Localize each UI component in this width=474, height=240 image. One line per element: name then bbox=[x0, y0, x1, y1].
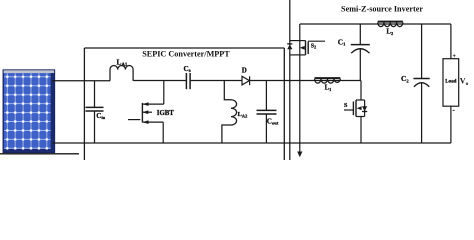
transistor S2 bbox=[287, 41, 325, 55]
load resistor box bbox=[443, 24, 459, 143]
wire: middle rail Cs to D bbox=[190, 80, 242, 82]
svg-text:SEPIC Converter/MPPT: SEPIC Converter/MPPT bbox=[142, 50, 230, 59]
inductor LA2 bbox=[222, 81, 237, 144]
wire: PV+ to SEPIC input (middle rail left) bbox=[52, 80, 110, 82]
svg-text:IGBT: IGBT bbox=[157, 110, 174, 117]
svg-text:Load: Load bbox=[445, 80, 456, 85]
capacitor Cin bbox=[86, 81, 104, 143]
wire: long vertical bus through S2 body-diode branch bbox=[289, 0, 291, 160]
SEPIC dashed enclosure box bbox=[84, 48, 284, 160]
svg-text:-: - bbox=[453, 107, 455, 114]
wire: middle rail LA1 to Cs bbox=[133, 80, 186, 82]
svg-text:D: D bbox=[242, 67, 247, 75]
transistor S1 bbox=[344, 81, 367, 144]
capacitor Cout bbox=[257, 81, 277, 144]
diode D bbox=[242, 76, 250, 85]
inductor L2 bbox=[378, 22, 403, 27]
wire: middle rail D to S1 drain node bbox=[250, 80, 361, 82]
capacitor Cs bbox=[186, 73, 190, 89]
wire: inverter top rail bbox=[300, 23, 451, 25]
inductor L1 bbox=[315, 78, 341, 83]
inductor LA1 bbox=[110, 65, 133, 80]
baseline under panel bbox=[0, 153, 79, 155]
wire: PV- to bottom rail bbox=[52, 142, 451, 144]
wire: inverter input vertical (through S2) bbox=[299, 24, 301, 143]
transistor IGBT bbox=[128, 81, 164, 144]
capacitor C1 bbox=[351, 24, 370, 81]
svg-text:+: + bbox=[453, 53, 456, 59]
capacitor C2 bbox=[414, 24, 430, 143]
svg-text:S2: S2 bbox=[311, 43, 316, 49]
PV panel (solar module) bbox=[3, 70, 54, 153]
svg-text:Semi-Z-source Inverter: Semi-Z-source Inverter bbox=[341, 4, 423, 13]
arrow below bottom rail at inverter input bbox=[297, 143, 302, 157]
